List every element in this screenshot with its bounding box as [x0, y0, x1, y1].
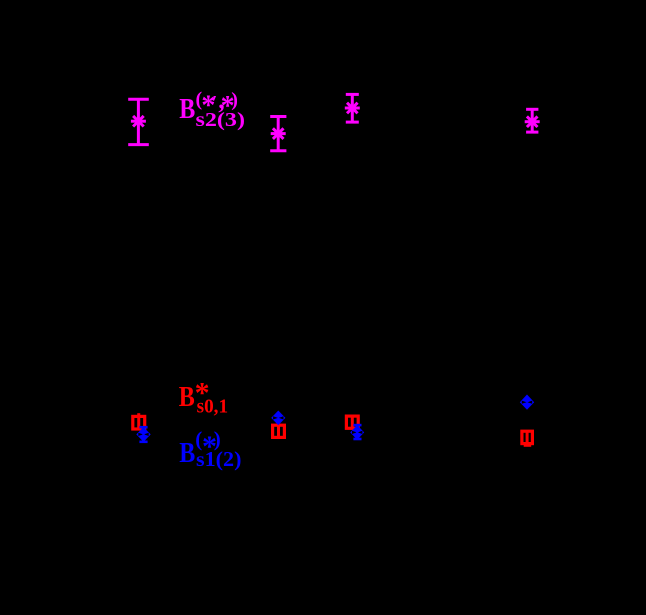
- svg-text:s1(2): s1(2): [196, 447, 242, 471]
- svg-text:B: B: [179, 437, 195, 469]
- svg-text:): ): [231, 89, 238, 111]
- svg-text:s2(3): s2(3): [196, 109, 246, 131]
- svg-text:B: B: [179, 93, 195, 125]
- svg-text:s0,1: s0,1: [197, 395, 229, 417]
- svg-text:B: B: [179, 381, 195, 413]
